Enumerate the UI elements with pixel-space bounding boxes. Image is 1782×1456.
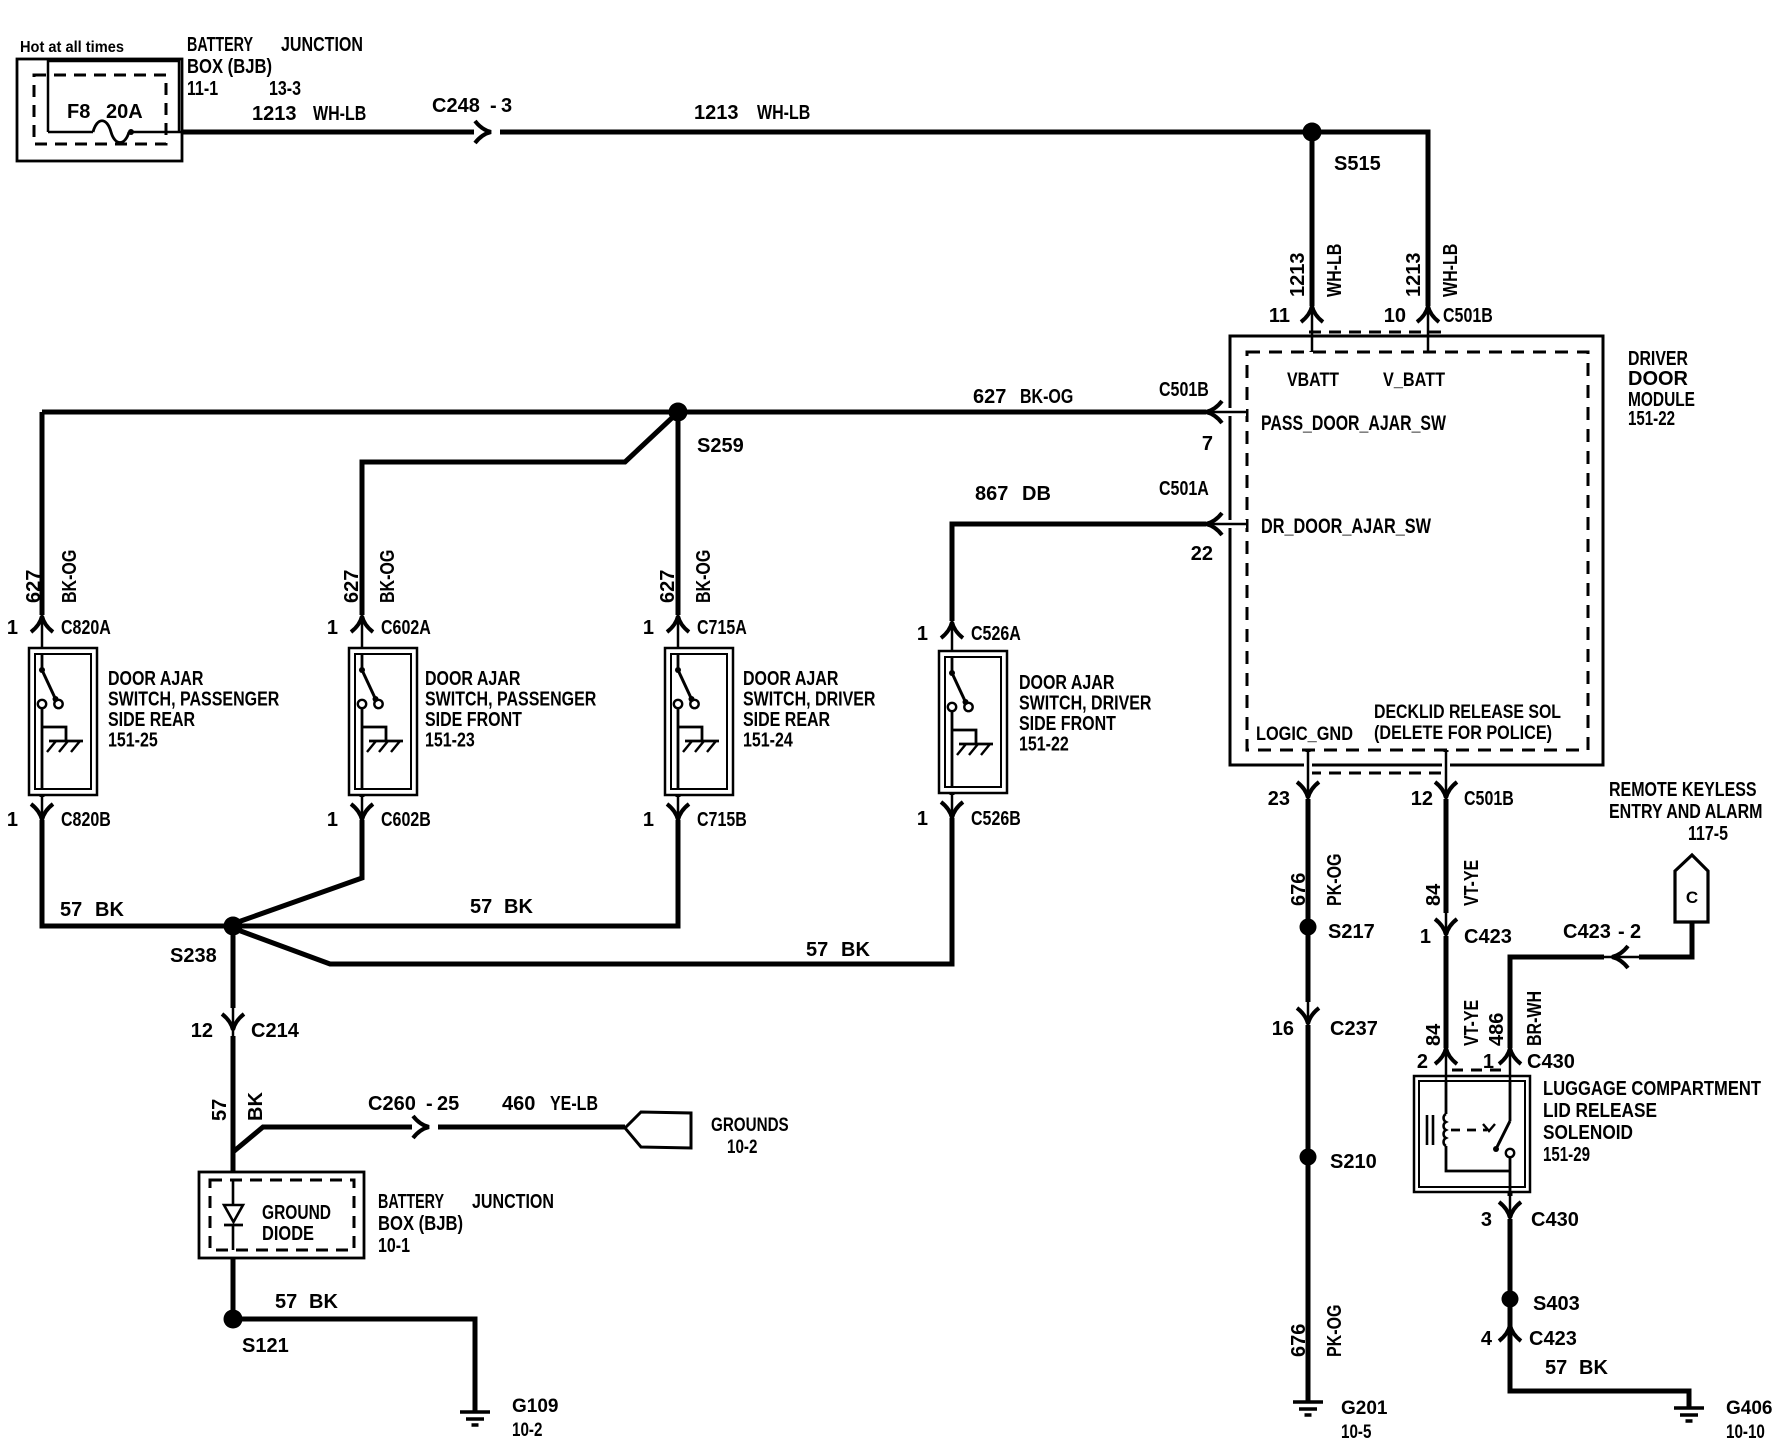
- svg-text:S515: S515: [1334, 153, 1381, 175]
- wire 57 BK from C602B to splice S238: [238, 826, 362, 922]
- svg-text:C423: C423: [1529, 1328, 1577, 1350]
- svg-text:627: 627: [657, 570, 679, 603]
- svg-text:C423: C423: [1464, 926, 1512, 948]
- svg-text:22: 22: [1191, 543, 1213, 565]
- wire out of C602B: [360, 795, 365, 826]
- wire WH-LB from S515 to driver door module pin 10: [1312, 132, 1428, 352]
- svg-text:1: 1: [917, 623, 928, 645]
- connector C501A pin 22 arrow: [1159, 478, 1247, 565]
- svg-text:84: 84: [1423, 1023, 1445, 1046]
- svg-text:-: -: [1618, 921, 1625, 943]
- connector C214 arrow pin 12: [191, 1007, 300, 1042]
- svg-text:C501A: C501A: [1159, 478, 1209, 500]
- svg-text:4: 4: [1481, 1328, 1493, 1350]
- svg-text:BOX (BJB): BOX (BJB): [187, 56, 272, 78]
- svg-text:PASS_DOOR_AJAR_SW: PASS_DOOR_AJAR_SW: [1261, 412, 1446, 435]
- svg-text:S403: S403: [1533, 1293, 1580, 1315]
- svg-text:G201: G201: [1341, 1398, 1388, 1419]
- svg-text:LOGIC_GND: LOGIC_GND: [1256, 724, 1353, 745]
- svg-text:151-24: 151-24: [743, 730, 793, 752]
- svg-text:460: 460: [502, 1093, 535, 1115]
- svg-text:C602B: C602B: [381, 809, 431, 831]
- connector pin 23 arrow: [1268, 751, 1319, 810]
- svg-text:WH-LB: WH-LB: [757, 102, 810, 124]
- svg-text:BK-OG: BK-OG: [377, 550, 399, 603]
- svg-text:DR_DOOR_AJAR_SW: DR_DOOR_AJAR_SW: [1261, 515, 1431, 538]
- svg-text:ENTRY AND ALARM: ENTRY AND ALARM: [1609, 801, 1763, 823]
- wire out of C715B: [676, 795, 681, 826]
- svg-text:WH-LB: WH-LB: [313, 103, 366, 125]
- connector C820A arrow pin 1: [7, 614, 111, 648]
- svg-text:S121: S121: [242, 1335, 289, 1357]
- wire 1213 WH-LB from C248 to splice S515: [500, 130, 1312, 135]
- svg-text:C820B: C820B: [61, 809, 111, 831]
- splice S210: [1300, 1149, 1377, 1174]
- connector C430 arrow pin 2: [1417, 1047, 1457, 1081]
- ground G109: [460, 1410, 490, 1414]
- wire 676 PK-OG from module pin 23: [1306, 750, 1311, 1402]
- svg-text:S210: S210: [1330, 1151, 1377, 1173]
- label driver door module 151-22: [1628, 348, 1695, 430]
- svg-text:(DELETE FOR POLICE): (DELETE FOR POLICE): [1374, 723, 1552, 744]
- connector C526B arrow pin 1: [917, 794, 1021, 830]
- svg-text:151-22: 151-22: [1019, 734, 1069, 756]
- connector C430 arrow pin 3: [1481, 1195, 1579, 1231]
- wire 84 VT-YE from module pin 12: [1444, 750, 1449, 1081]
- svg-text:Hot at all times: Hot at all times: [20, 39, 124, 56]
- svg-text:11-1: 11-1: [187, 78, 218, 100]
- svg-text:20A: 20A: [106, 101, 143, 123]
- svg-text:C715A: C715A: [697, 617, 747, 639]
- svg-text:G406: G406: [1726, 1398, 1772, 1419]
- svg-text:-: -: [426, 1093, 433, 1115]
- wire 57 BK from C715B to splice S238: [233, 826, 678, 926]
- label door ajar switch 151-22: [1019, 672, 1152, 756]
- svg-text:BK: BK: [309, 1291, 338, 1313]
- svg-text:627: 627: [23, 570, 45, 603]
- connector C715A arrow pin 1: [643, 614, 747, 648]
- label 1213 WH-LB vertical pin 10: [1403, 244, 1462, 297]
- svg-text:SWITCH, PASSENGER: SWITCH, PASSENGER: [108, 689, 280, 711]
- svg-text:627: 627: [341, 570, 363, 603]
- wire into C715A: [676, 610, 681, 648]
- svg-text:S259: S259: [697, 435, 744, 457]
- svg-text:VT-YE: VT-YE: [1461, 1000, 1483, 1046]
- label 460 YE-LB: [502, 1093, 598, 1115]
- svg-text:C423: C423: [1563, 921, 1611, 943]
- connector C260-25 arrow: [368, 1093, 459, 1138]
- label luggage compartment lid release solenoid 151-29: [1543, 1078, 1761, 1166]
- label 57 BK vertical: [209, 1092, 267, 1121]
- connector C423-2 arrow: [1563, 921, 1641, 968]
- connector C602A arrow pin 1: [327, 614, 431, 648]
- svg-text:C526A: C526A: [971, 623, 1021, 645]
- svg-text:84: 84: [1423, 883, 1445, 906]
- svg-text:WH-LB: WH-LB: [1324, 244, 1346, 297]
- wire WH-LB from S515 to driver door module pin 11: [1310, 132, 1315, 352]
- ground G406: [1674, 1406, 1704, 1410]
- svg-text:VBATT: VBATT: [1287, 370, 1339, 391]
- wire 57 BK from S121 to ground G109: [233, 1319, 475, 1411]
- splice S259: [669, 403, 744, 458]
- label 676 PK-OG vertical top: [1288, 854, 1346, 907]
- svg-text:BATTERY: BATTERY: [187, 34, 253, 56]
- label 57 BK: [60, 899, 124, 921]
- svg-text:SIDE REAR: SIDE REAR: [108, 709, 196, 731]
- svg-text:13-3: 13-3: [269, 78, 301, 100]
- wire branch to C260: [233, 1127, 412, 1152]
- connector C423 arrow pin 1: [1420, 912, 1512, 948]
- connector C430 arrow pin 1: [1483, 1047, 1575, 1081]
- wire 627 BK-OG down to switch C715A: [676, 412, 681, 616]
- svg-text:REMOTE KEYLESS: REMOTE KEYLESS: [1609, 779, 1757, 801]
- svg-text:C526B: C526B: [971, 808, 1021, 830]
- connector pin 12 arrow: [1411, 751, 1514, 810]
- svg-text:BK-OG: BK-OG: [59, 550, 81, 603]
- svg-text:SIDE REAR: SIDE REAR: [743, 709, 831, 731]
- label remote keyless entry and alarm 117-5: [1609, 779, 1763, 845]
- wire into C602A: [360, 610, 365, 648]
- svg-text:57: 57: [1545, 1357, 1567, 1379]
- label battery junction box 10-1: [378, 1191, 554, 1257]
- svg-text:BK: BK: [95, 899, 124, 921]
- wire into C820A: [40, 610, 45, 648]
- svg-text:C430: C430: [1527, 1051, 1575, 1073]
- connector C501B pin 11 arrow: [1269, 305, 1323, 352]
- svg-text:1213: 1213: [694, 102, 739, 124]
- label 867 DB: [975, 483, 1051, 505]
- svg-text:57: 57: [275, 1291, 297, 1313]
- svg-text:GROUNDS: GROUNDS: [711, 1115, 789, 1136]
- svg-text:C260: C260: [368, 1093, 416, 1115]
- splice S217: [1300, 919, 1375, 944]
- svg-text:C501B: C501B: [1159, 379, 1209, 401]
- svg-text:BK-OG: BK-OG: [1020, 386, 1073, 408]
- label 57 BK: [806, 939, 870, 961]
- wire 57 BK from S238 to C214: [231, 926, 236, 1016]
- wire 57 BK from C526B to splice S238: [238, 824, 952, 964]
- svg-text:1: 1: [327, 617, 338, 639]
- wire from solenoid to C430 pin 3: [1508, 1192, 1513, 1299]
- wire 867 DB from switch C526A to module pin 22: [952, 524, 1247, 631]
- svg-text:10-1: 10-1: [378, 1235, 410, 1257]
- svg-text:JUNCTION: JUNCTION: [472, 1191, 554, 1213]
- svg-text:12: 12: [191, 1020, 213, 1042]
- wire 627 BK-OG splice branch to switch C602A: [362, 416, 674, 616]
- svg-text:57: 57: [470, 896, 492, 918]
- svg-text:C214: C214: [251, 1020, 300, 1042]
- svg-text:C602A: C602A: [381, 617, 431, 639]
- door ajar switch 151-24 box: [665, 648, 733, 795]
- svg-text:DOOR AJAR: DOOR AJAR: [108, 668, 204, 690]
- svg-text:151-29: 151-29: [1543, 1144, 1590, 1166]
- wire out of C526B: [950, 793, 955, 824]
- label G109 10-2: [512, 1396, 558, 1441]
- svg-text:SIDE FRONT: SIDE FRONT: [1019, 713, 1116, 735]
- svg-text:C237: C237: [1330, 1018, 1378, 1040]
- svg-text:1: 1: [643, 809, 654, 831]
- svg-text:627: 627: [973, 386, 1006, 408]
- door ajar switch 151-22 box: [939, 651, 1007, 793]
- svg-text:C820A: C820A: [61, 617, 111, 639]
- label 627 BK-OG vertical 3: [657, 550, 715, 603]
- svg-text:2: 2: [1630, 921, 1641, 943]
- svg-text:C: C: [1686, 888, 1698, 907]
- splice S238: [170, 917, 243, 968]
- wire 57 BK from ground diode to splice S121: [231, 1258, 236, 1319]
- connector C248-3 arrow: [432, 95, 512, 143]
- svg-text:BOX (BJB): BOX (BJB): [378, 1213, 463, 1235]
- label G406 10-10: [1726, 1398, 1772, 1443]
- svg-text:117-5: 117-5: [1688, 823, 1728, 845]
- svg-text:1: 1: [7, 809, 18, 831]
- svg-text:10-2: 10-2: [727, 1137, 757, 1158]
- label battery junction box 11-1 13-3: [187, 34, 363, 100]
- svg-text:C501B: C501B: [1443, 305, 1493, 327]
- svg-text:JUNCTION: JUNCTION: [281, 34, 363, 56]
- svg-text:SWITCH, PASSENGER: SWITCH, PASSENGER: [425, 689, 597, 711]
- svg-text:-: -: [490, 95, 497, 117]
- svg-text:SOLENOID: SOLENOID: [1543, 1122, 1633, 1144]
- svg-text:486: 486: [1486, 1013, 1508, 1046]
- svg-text:C501B: C501B: [1464, 788, 1514, 810]
- door ajar switch 151-25 box: [29, 648, 97, 795]
- svg-text:BK: BK: [841, 939, 870, 961]
- wire 627 BK-OG horizontal to module pin 7: [42, 410, 1247, 415]
- svg-text:YE-LB: YE-LB: [550, 1093, 598, 1115]
- ground diode in battery junction box: [199, 1172, 364, 1258]
- svg-text:BK: BK: [245, 1092, 267, 1121]
- label door ajar switch 151-24: [743, 668, 876, 752]
- svg-text:PK-OG: PK-OG: [1324, 854, 1346, 907]
- svg-text:10-2: 10-2: [512, 1420, 542, 1441]
- svg-text:1: 1: [917, 808, 928, 830]
- svg-text:SWITCH, DRIVER: SWITCH, DRIVER: [1019, 693, 1152, 715]
- svg-text:1: 1: [327, 809, 338, 831]
- label 57 BK: [470, 896, 533, 918]
- label GROUNDS 10-2: [711, 1115, 789, 1158]
- svg-text:BK-OG: BK-OG: [693, 550, 715, 603]
- svg-text:SIDE FRONT: SIDE FRONT: [425, 709, 522, 731]
- svg-text:676: 676: [1288, 873, 1310, 906]
- svg-text:F8: F8: [67, 101, 90, 123]
- dashed connector line C430: [1452, 1069, 1505, 1072]
- label 57 BK: [1545, 1357, 1608, 1379]
- svg-text:C248: C248: [432, 95, 480, 117]
- label 676 PK-OG vertical bottom: [1288, 1305, 1346, 1358]
- svg-text:C715B: C715B: [697, 809, 747, 831]
- svg-text:DIODE: DIODE: [262, 1223, 314, 1245]
- wire 57 BK from C820B to splice S238: [42, 826, 233, 926]
- label 1213 WH-LB: [694, 102, 810, 124]
- label 57 BK: [275, 1291, 338, 1313]
- remote keyless entry and alarm connector C: [1675, 855, 1708, 922]
- connector C715B arrow pin 1: [643, 796, 747, 831]
- wire 460 YE-LB to grounds connector: [438, 1125, 625, 1130]
- ground G201: [1293, 1400, 1323, 1404]
- svg-text:BATTERY: BATTERY: [378, 1191, 444, 1213]
- label 1213 WH-LB: [252, 103, 366, 125]
- svg-text:BK: BK: [1579, 1357, 1608, 1379]
- svg-text:GROUND: GROUND: [262, 1202, 331, 1224]
- connector C526A arrow pin 1: [917, 620, 1021, 651]
- svg-text:10-5: 10-5: [1341, 1422, 1372, 1443]
- svg-text:LID RELEASE: LID RELEASE: [1543, 1100, 1657, 1122]
- driver door module 151-22 box: [1230, 336, 1603, 765]
- splice S121: [224, 1310, 289, 1358]
- svg-text:25: 25: [437, 1093, 459, 1115]
- svg-text:WH-LB: WH-LB: [1440, 244, 1462, 297]
- svg-text:DB: DB: [1022, 483, 1051, 505]
- svg-text:23: 23: [1268, 788, 1290, 810]
- svg-text:1213: 1213: [1287, 253, 1309, 298]
- svg-text:DOOR AJAR: DOOR AJAR: [425, 668, 521, 690]
- dashed connector line C501B top: [1309, 331, 1448, 334]
- svg-text:151-23: 151-23: [425, 730, 475, 752]
- wire 57 BK from C214 to ground diode: [231, 1036, 236, 1172]
- svg-text:57: 57: [806, 939, 828, 961]
- luggage compartment lid release solenoid box: [1414, 1076, 1530, 1192]
- svg-text:57: 57: [209, 1099, 231, 1121]
- svg-text:PK-OG: PK-OG: [1324, 1305, 1346, 1358]
- svg-text:BR-WH: BR-WH: [1524, 991, 1546, 1046]
- svg-text:12: 12: [1411, 788, 1433, 810]
- svg-text:S238: S238: [170, 945, 217, 967]
- connector C501B pin 10 arrow: [1384, 305, 1493, 352]
- svg-text:G109: G109: [512, 1396, 558, 1417]
- svg-text:1: 1: [7, 617, 18, 639]
- wire 627 BK-OG down to switch C820A: [40, 412, 45, 616]
- svg-text:1: 1: [643, 617, 654, 639]
- wire from connector C down: [1630, 922, 1692, 957]
- svg-text:LUGGAGE COMPARTMENT: LUGGAGE COMPARTMENT: [1543, 1078, 1761, 1100]
- svg-text:151-25: 151-25: [108, 730, 158, 752]
- wire into C526A: [950, 616, 955, 651]
- svg-text:DOOR: DOOR: [1628, 368, 1689, 390]
- svg-text:1213: 1213: [1403, 253, 1425, 298]
- dashed connector line C501B bottom: [1309, 772, 1448, 775]
- label 486 BR-WH vertical: [1486, 991, 1546, 1046]
- connector C602B arrow pin 1: [327, 796, 431, 831]
- svg-text:10: 10: [1384, 305, 1406, 327]
- svg-text:VT-YE: VT-YE: [1461, 860, 1483, 906]
- wire 486 BR-WH to solenoid: [1510, 957, 1604, 1081]
- svg-text:57: 57: [60, 899, 82, 921]
- svg-text:DECKLID RELEASE SOL: DECKLID RELEASE SOL: [1374, 702, 1561, 723]
- label G201 10-5: [1341, 1398, 1388, 1443]
- svg-text:DOOR AJAR: DOOR AJAR: [743, 668, 839, 690]
- splice S403: [1502, 1291, 1580, 1316]
- splice S515: [1303, 123, 1381, 176]
- svg-text:BK: BK: [504, 896, 533, 918]
- svg-text:7: 7: [1202, 433, 1213, 455]
- label 84 VT-YE vertical mid: [1423, 1000, 1483, 1046]
- svg-text:16: 16: [1272, 1018, 1294, 1040]
- label door ajar switch 151-23: [425, 668, 597, 752]
- svg-text:151-22: 151-22: [1628, 408, 1675, 430]
- wire 1213 WH-LB from fuse F8 to connector C248: [182, 130, 474, 135]
- svg-text:S217: S217: [1328, 921, 1375, 943]
- svg-text:1: 1: [1420, 926, 1431, 948]
- svg-text:11: 11: [1269, 305, 1290, 327]
- label 627 BK-OG vertical 1: [23, 550, 81, 603]
- svg-text:DRIVER: DRIVER: [1628, 348, 1688, 370]
- label 84 VT-YE vertical top: [1423, 860, 1483, 906]
- connector C501B pin 7 arrow: [1159, 379, 1247, 455]
- connector C820B arrow pin 1: [7, 796, 111, 831]
- door ajar switch 151-23 box: [349, 648, 417, 795]
- connector C423 arrow pin 4: [1481, 1324, 1577, 1350]
- grounds connector tag: [625, 1112, 691, 1148]
- fuse F8 20A in battery junction box (hot at all times): [17, 39, 182, 161]
- connector C237 arrow pin 16: [1272, 1001, 1378, 1040]
- svg-text:676: 676: [1288, 1324, 1310, 1357]
- svg-text:3: 3: [1481, 1209, 1492, 1231]
- svg-text:DOOR AJAR: DOOR AJAR: [1019, 672, 1115, 694]
- label door ajar switch 151-25: [108, 668, 280, 752]
- svg-text:1213: 1213: [252, 103, 297, 125]
- wire 57 BK from S403 to ground G406: [1510, 1299, 1689, 1407]
- svg-text:C430: C430: [1531, 1209, 1579, 1231]
- svg-text:2: 2: [1417, 1051, 1428, 1073]
- svg-text:V_BATT: V_BATT: [1383, 370, 1445, 391]
- label 1213 WH-LB vertical pin 11: [1287, 244, 1346, 297]
- svg-text:10-10: 10-10: [1726, 1422, 1765, 1443]
- svg-text:867: 867: [975, 483, 1008, 505]
- svg-text:SWITCH, DRIVER: SWITCH, DRIVER: [743, 689, 876, 711]
- wire out of C820B: [40, 795, 45, 826]
- label 627 BK-OG: [973, 386, 1073, 408]
- label 627 BK-OG vertical 2: [341, 550, 399, 603]
- svg-text:3: 3: [501, 95, 512, 117]
